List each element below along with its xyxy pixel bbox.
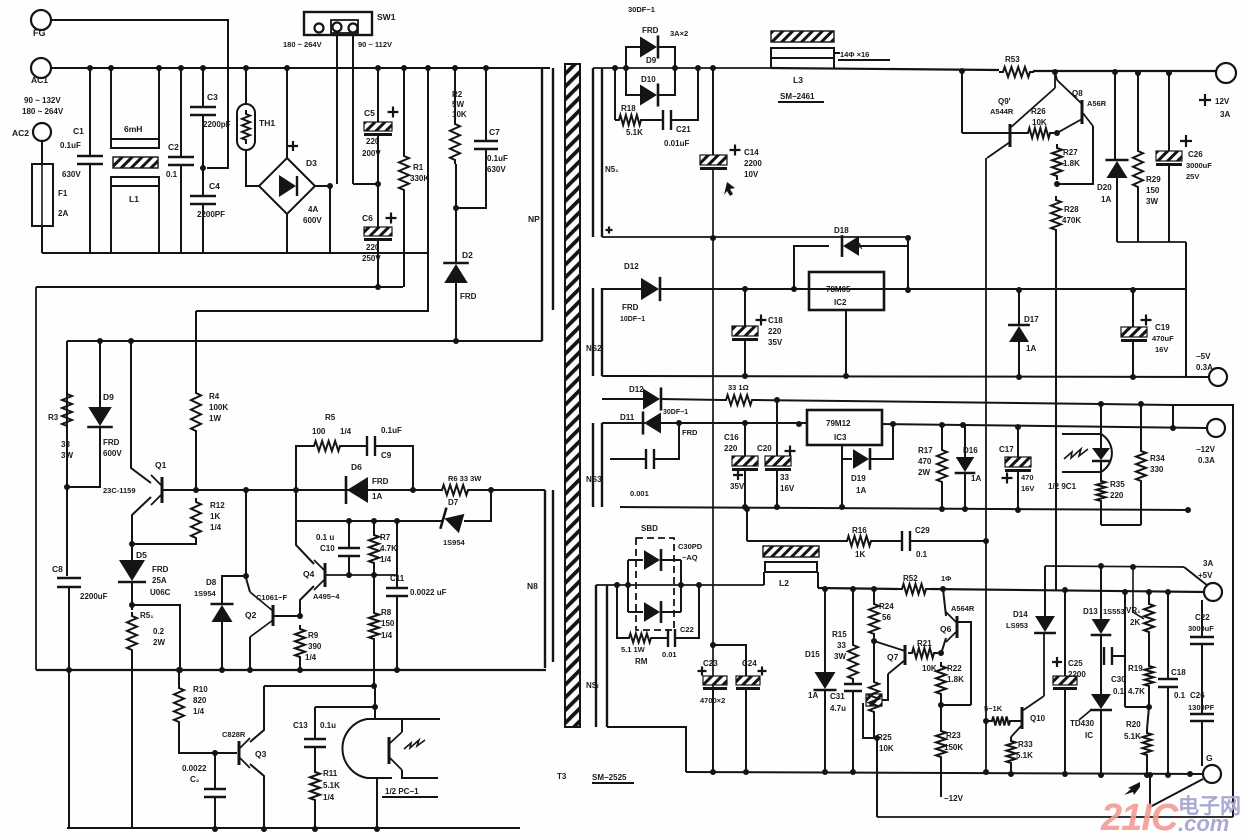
wire NS1 bottom lead — [602, 236, 908, 238]
svg-text:C25: C25 — [1068, 659, 1083, 668]
wire R23 bottom — [940, 761, 942, 797]
svg-text:LS953: LS953 — [1006, 621, 1028, 630]
svg-text:1K: 1K — [855, 550, 865, 559]
wire SBD d2 out — [660, 611, 681, 613]
svg-text:1S954: 1S954 — [443, 538, 466, 547]
svg-text:R24: R24 — [879, 602, 894, 611]
resistor R5t — [127, 612, 137, 654]
wire D15 bottom — [824, 691, 826, 772]
svg-text:R10: R10 — [193, 685, 208, 694]
optocoupler PC-1 light arrows — [404, 740, 425, 749]
SBD dashed box — [636, 538, 674, 630]
wire R19 bottom — [1148, 690, 1150, 707]
wire SBD anode bracket — [627, 560, 629, 612]
svg-text:C1: C1 — [73, 126, 84, 136]
junction C14 top — [710, 65, 716, 71]
svg-text:820: 820 — [193, 696, 207, 705]
resistor R24 — [869, 600, 879, 638]
wire rail 772 — [686, 772, 1204, 774]
wire Q3 collector — [250, 686, 264, 742]
wire rail 289 — [660, 288, 1186, 290]
wire R28 long drop — [1055, 234, 1057, 590]
junction Q2 base R9 — [297, 613, 303, 619]
svg-text:A564R: A564R — [951, 604, 975, 613]
wire rail 507 — [620, 507, 1188, 510]
wire snubber right — [375, 446, 413, 490]
junction C6 bottom — [375, 284, 381, 290]
svg-text:R18: R18 — [621, 104, 636, 113]
capacitor C16 — [732, 456, 758, 471]
junction C24 rail — [743, 769, 749, 775]
wire R1 bottom — [403, 194, 405, 287]
svg-text:3000uF: 3000uF — [1186, 161, 1212, 170]
svg-text:C19: C19 — [1155, 323, 1170, 332]
wire D12b jog — [602, 398, 627, 400]
svg-text:R2: R2 — [452, 90, 463, 99]
svg-text:2K: 2K — [1130, 618, 1140, 627]
svg-text:C14: C14 — [744, 148, 759, 157]
svg-text:R29: R29 — [1146, 175, 1161, 184]
svg-text:1K: 1K — [210, 512, 220, 521]
thyristor TD430 — [1079, 694, 1112, 720]
svg-text:1.8K: 1.8K — [947, 675, 964, 684]
junction R20 rail — [1144, 772, 1150, 778]
wire snubber left — [296, 446, 310, 490]
wire Q6 right link — [958, 622, 971, 705]
wire FG to C3 node — [51, 20, 228, 168]
inductor L3 bar — [771, 48, 834, 58]
junction C23 top — [710, 642, 716, 648]
wire NP top — [542, 67, 550, 69]
junction R11 rail828 — [312, 826, 318, 832]
svg-text:3A: 3A — [1203, 559, 1213, 568]
wire x1125 drop — [1124, 592, 1126, 707]
wire IC3 gnd — [841, 445, 843, 507]
diode D13 — [1091, 619, 1112, 635]
svg-text:1/4: 1/4 — [210, 523, 222, 532]
wire R2 to D2 — [455, 164, 457, 264]
wire RM to C22 — [655, 637, 668, 639]
wire C26 top — [1168, 73, 1170, 151]
wire C13 top — [314, 707, 316, 739]
winding NS4 — [596, 585, 607, 727]
svg-text:C13: C13 — [293, 721, 308, 730]
svg-text:D2: D2 — [462, 250, 473, 260]
resistor R6 — [438, 485, 472, 495]
wire R4 bottom — [195, 435, 197, 490]
wire C29 right — [910, 540, 986, 542]
terminal -12V — [1207, 419, 1225, 437]
junction R17 rail — [939, 506, 945, 512]
junction D18 right — [905, 287, 911, 293]
svg-text:3W: 3W — [61, 451, 73, 460]
junction x428 top — [425, 65, 431, 71]
svg-text:1A: 1A — [971, 474, 981, 483]
wire to -5V rail — [1185, 242, 1187, 377]
svg-text:3000uF: 3000uF — [1188, 624, 1214, 633]
capacitor C12 — [204, 789, 226, 797]
junction rail399 end — [1170, 425, 1176, 431]
wire line521 — [296, 490, 442, 521]
resistor R12 — [191, 498, 201, 542]
wire rail 376 — [602, 376, 1208, 377]
wire D13 drop — [1100, 566, 1102, 620]
wire R7 top — [373, 521, 375, 531]
svg-text:R23: R23 — [946, 731, 961, 740]
choke L1 core hatched — [113, 157, 158, 168]
terminal G — [1203, 765, 1221, 783]
wire D8 stub — [222, 576, 246, 604]
resistor R27 — [1052, 144, 1062, 180]
svg-text:21IC: 21IC — [1100, 797, 1179, 839]
wire opto top lead — [375, 718, 440, 720]
wire bridge bottom — [286, 214, 288, 253]
svg-text:R12: R12 — [210, 501, 225, 510]
svg-text:D11: D11 — [620, 413, 635, 422]
svg-text:C16: C16 — [724, 433, 739, 442]
svg-text:C18: C18 — [1171, 668, 1186, 677]
capacitor C11 — [386, 588, 408, 596]
wire C18 top — [744, 289, 746, 326]
svg-text:TH1: TH1 — [259, 118, 275, 128]
wire C10 top — [348, 521, 350, 548]
wire SBD d2 anode — [628, 611, 643, 613]
wire R24 top — [873, 589, 875, 600]
svg-text:R16: R16 — [852, 526, 867, 535]
wire C19 bottom — [1132, 342, 1134, 377]
junction D8 rail670 — [219, 667, 225, 673]
wire 242 stub — [1117, 241, 1186, 243]
resistor R9 — [295, 625, 305, 661]
svg-text:33 1Ω: 33 1Ω — [728, 383, 749, 392]
svg-text:C1061−F: C1061−F — [256, 593, 287, 602]
svg-text:16V: 16V — [780, 484, 795, 493]
svg-text:0.1: 0.1 — [1174, 691, 1186, 700]
capacitor C14 — [700, 155, 727, 170]
wire D11 to D12b — [627, 398, 645, 400]
capacitor C31 — [844, 684, 862, 691]
svg-text:100K: 100K — [209, 403, 228, 412]
inductor L3 hatched bar — [771, 31, 834, 42]
wire R1 top — [403, 68, 405, 152]
plus NS1 bottom — [606, 227, 613, 234]
junction x1125 rail — [1122, 589, 1128, 595]
svg-text:F1: F1 — [58, 189, 68, 198]
wire Q10 collector — [1043, 634, 1045, 696]
svg-text:SM−2525: SM−2525 — [592, 773, 627, 782]
junction R10 rail670 — [176, 667, 182, 673]
svg-text:0.1: 0.1 — [916, 550, 928, 559]
resistor R52 — [898, 584, 930, 594]
svg-text:0.01uF: 0.01uF — [664, 139, 689, 148]
junction D16 rail — [962, 506, 968, 512]
svg-text:D10: D10 — [641, 75, 656, 84]
svg-text:C9: C9 — [381, 451, 392, 460]
junction C28 top — [1165, 589, 1171, 595]
junction C17 rail — [1015, 507, 1021, 513]
cursor artifact — [724, 182, 735, 196]
junction IC3 out — [890, 421, 896, 427]
svg-text:1/4: 1/4 — [380, 555, 392, 564]
wire x375 drop — [374, 686, 376, 719]
wire rail341 left drop — [66, 341, 68, 487]
svg-text:100: 100 — [312, 427, 326, 436]
svg-text:C26: C26 — [1190, 691, 1205, 700]
svg-text:NS3: NS3 — [586, 475, 602, 484]
wire Q1 base line — [162, 489, 438, 491]
junction C12 top — [212, 750, 218, 756]
wire C15 up — [654, 423, 679, 459]
wire C22 up — [675, 585, 699, 638]
junction C18 rail376 — [742, 373, 748, 379]
underline SM-2461 — [778, 101, 824, 103]
transistor Q9 — [987, 88, 1055, 158]
capacitor C7 — [474, 141, 498, 149]
junction 707 x375 — [372, 704, 378, 710]
svg-text:630V: 630V — [487, 165, 506, 174]
svg-text:0.2: 0.2 — [153, 627, 165, 636]
wire C31 bottom — [852, 691, 854, 772]
svg-text:R17: R17 — [918, 446, 933, 455]
svg-text:.com: .com — [1178, 811, 1229, 836]
wire bridge top — [286, 68, 288, 158]
wire R15 top — [852, 589, 854, 641]
junction D17 top — [1016, 287, 1022, 293]
svg-text:3W: 3W — [834, 652, 846, 661]
wire R29 top — [1137, 73, 1139, 147]
wire C21 up — [671, 68, 698, 120]
junction IC3 gnd — [839, 504, 845, 510]
terminal +5V — [1204, 583, 1222, 601]
junction SBD anode — [625, 582, 631, 588]
resistor R11 — [310, 768, 320, 804]
junction Q1 collector — [128, 338, 134, 344]
underline L3 size — [838, 59, 890, 61]
wire SW1 right pole — [352, 35, 354, 184]
junction R3 D9 bottom — [64, 484, 70, 490]
svg-text:C29: C29 — [915, 526, 930, 535]
wire opto to rail — [376, 778, 378, 829]
plus C25 — [1052, 657, 1062, 667]
svg-text:C30PD: C30PD — [678, 542, 703, 551]
plus C18 — [756, 315, 767, 326]
junction x246 base — [243, 487, 249, 493]
svg-text:79M12: 79M12 — [826, 419, 851, 428]
wire L1 right lower — [158, 186, 160, 253]
junction base C10 — [346, 572, 352, 578]
svg-text:470: 470 — [1021, 473, 1034, 482]
wire x908 drop — [907, 237, 909, 290]
junction R18 top — [612, 65, 618, 71]
diode SBD2 — [644, 601, 661, 623]
capacitor C29 — [902, 531, 910, 551]
wire R24 to R25 — [873, 641, 875, 678]
junction line521 C10 — [346, 518, 352, 524]
svg-text:0.001: 0.001 — [630, 489, 649, 498]
svg-text:1/2 PC−1: 1/2 PC−1 — [385, 787, 419, 796]
svg-text:0.01: 0.01 — [662, 650, 677, 659]
junction snubber right — [410, 487, 416, 493]
junction C20 top — [774, 397, 780, 403]
wire C4 bottom — [202, 204, 204, 253]
wire TH1 to bridge — [246, 150, 259, 186]
junction C19 top — [1130, 287, 1136, 293]
wire TD430 bottom — [1100, 709, 1102, 775]
svg-text:5.1K: 5.1K — [626, 128, 643, 137]
svg-text:R52: R52 — [903, 574, 918, 583]
wire R34 top — [1140, 404, 1142, 447]
plus C23 — [698, 667, 707, 676]
svg-text:600V: 600V — [303, 216, 322, 225]
svg-text:C5: C5 — [364, 108, 375, 118]
svg-text:10K: 10K — [452, 110, 467, 119]
wire TH1 top — [245, 68, 247, 104]
svg-text:0.1: 0.1 — [1113, 687, 1125, 696]
plus C24 — [758, 667, 767, 676]
junction R22 R23 — [938, 702, 944, 708]
wire L2 in — [763, 572, 765, 585]
underline SM-2525 — [592, 782, 634, 784]
svg-text:78M05: 78M05 — [826, 285, 851, 294]
cursor artifact 2 — [1124, 782, 1140, 795]
wire G diagonal — [1150, 775, 1203, 807]
wire C5 bottom — [377, 136, 379, 227]
wire Q9 base — [962, 132, 1010, 134]
wire R20 bottom — [1146, 759, 1148, 775]
svg-text:D12: D12 — [624, 262, 639, 271]
svg-text:150: 150 — [1146, 186, 1160, 195]
junction R2 top — [452, 65, 458, 71]
svg-text:5.1 1W: 5.1 1W — [621, 645, 646, 654]
wire C20 drop — [776, 400, 778, 456]
svg-text:R28: R28 — [1064, 205, 1079, 214]
transistor Q10 — [1011, 696, 1044, 737]
wire C15 link — [610, 458, 646, 460]
junction D20 top — [1112, 69, 1118, 75]
wire rail 817 — [877, 816, 1233, 818]
junction R9 rail670 — [297, 667, 303, 673]
svg-text:D9: D9 — [646, 56, 657, 65]
transistor Q4 — [314, 560, 325, 590]
capacitor C1 — [77, 156, 103, 164]
terminal +12V — [1216, 63, 1236, 83]
wire C20 bottom — [776, 471, 778, 507]
wire SW1 middle pole — [336, 33, 338, 184]
junction R24 top — [871, 586, 877, 592]
svg-text:C21: C21 — [676, 125, 691, 134]
svg-text:0.0022 uF: 0.0022 uF — [410, 588, 447, 597]
capacitor C20 — [765, 456, 791, 471]
regulator IC2 box — [809, 272, 884, 310]
wire Q2 emitter — [249, 637, 251, 670]
svg-text:2200uF: 2200uF — [80, 592, 108, 601]
svg-text:NSₗ: NSₗ — [586, 681, 599, 690]
junction line521 R7 — [371, 518, 377, 524]
wire Q4 collector — [296, 521, 314, 564]
svg-text:330K: 330K — [410, 174, 429, 183]
svg-text:R9: R9 — [308, 631, 319, 640]
svg-text:Q7: Q7 — [887, 652, 899, 662]
thermistor TH1 — [237, 104, 255, 150]
resistor R2 — [450, 120, 460, 164]
resistor R19 — [1145, 662, 1154, 690]
inductor L2 bar — [765, 562, 817, 572]
svg-text:D16: D16 — [963, 446, 978, 455]
svg-text:R5₁: R5₁ — [140, 611, 154, 620]
svg-text:33: 33 — [780, 473, 789, 482]
svg-text:600V: 600V — [103, 449, 122, 458]
svg-text:C20: C20 — [757, 444, 772, 453]
wire C19 top — [1132, 290, 1134, 327]
svg-text:N8: N8 — [527, 581, 538, 591]
svg-text:4.7K: 4.7K — [1128, 687, 1145, 696]
plus 12V — [1199, 94, 1211, 106]
junction C12 rail828 — [212, 826, 218, 832]
svg-text:C11: C11 — [390, 574, 405, 583]
plus C5 — [388, 107, 399, 118]
svg-text:D9: D9 — [103, 392, 114, 402]
svg-text:C17: C17 — [999, 445, 1014, 454]
capacitor C19 — [1121, 327, 1147, 342]
wire D19 right — [870, 424, 893, 459]
wire R5t bottom — [131, 654, 133, 828]
terminal AC1 — [31, 58, 51, 78]
resistor R10 — [174, 684, 184, 726]
junction bridge right — [327, 183, 333, 189]
junction G rail — [1187, 771, 1193, 777]
wire L3 right — [834, 52, 840, 54]
wire L3 left — [770, 58, 772, 68]
wire NS1 top lead — [593, 67, 771, 69]
svg-text:0.1: 0.1 — [166, 170, 178, 179]
wire D5 bypass — [132, 605, 180, 670]
svg-text:1A: 1A — [808, 691, 818, 700]
junction R24 Q7 — [871, 638, 877, 644]
junction C23 rail — [710, 769, 716, 775]
capacitor C24 — [736, 676, 760, 690]
junction D16 top — [960, 422, 966, 428]
wire L3 to rail — [833, 58, 835, 68]
junction L1 left top — [108, 65, 114, 71]
resistor R20 — [1143, 729, 1152, 759]
svg-text:R20: R20 — [1126, 720, 1141, 729]
junction D13 top — [1098, 563, 1104, 569]
wire rail828 left up — [68, 670, 70, 828]
junction C20 rail507 — [774, 504, 780, 510]
resistor R25 — [869, 678, 879, 716]
wire SBD d1 out — [660, 559, 681, 561]
svg-text:Q1: Q1 — [155, 460, 167, 470]
svg-text:R22: R22 — [947, 664, 962, 673]
diode D12 — [641, 277, 660, 301]
svg-text:2W: 2W — [918, 468, 930, 477]
svg-text:56: 56 — [882, 613, 891, 622]
svg-text:FRD: FRD — [460, 292, 477, 301]
diode D14 — [1034, 616, 1056, 633]
resistor R4 — [191, 389, 201, 435]
svg-text:L2: L2 — [779, 578, 789, 588]
wire D5 top — [131, 544, 133, 563]
svg-text:C3: C3 — [207, 92, 218, 102]
wire L2 out — [817, 572, 819, 588]
svg-text:Q10: Q10 — [1030, 714, 1046, 723]
switch SW1 body — [304, 12, 372, 35]
wire C24 link — [713, 645, 746, 676]
svg-text:Q4: Q4 — [303, 569, 315, 579]
wire R8 bottom — [373, 643, 375, 686]
junction D9D10 right — [672, 65, 678, 71]
winding NP — [542, 68, 553, 341]
